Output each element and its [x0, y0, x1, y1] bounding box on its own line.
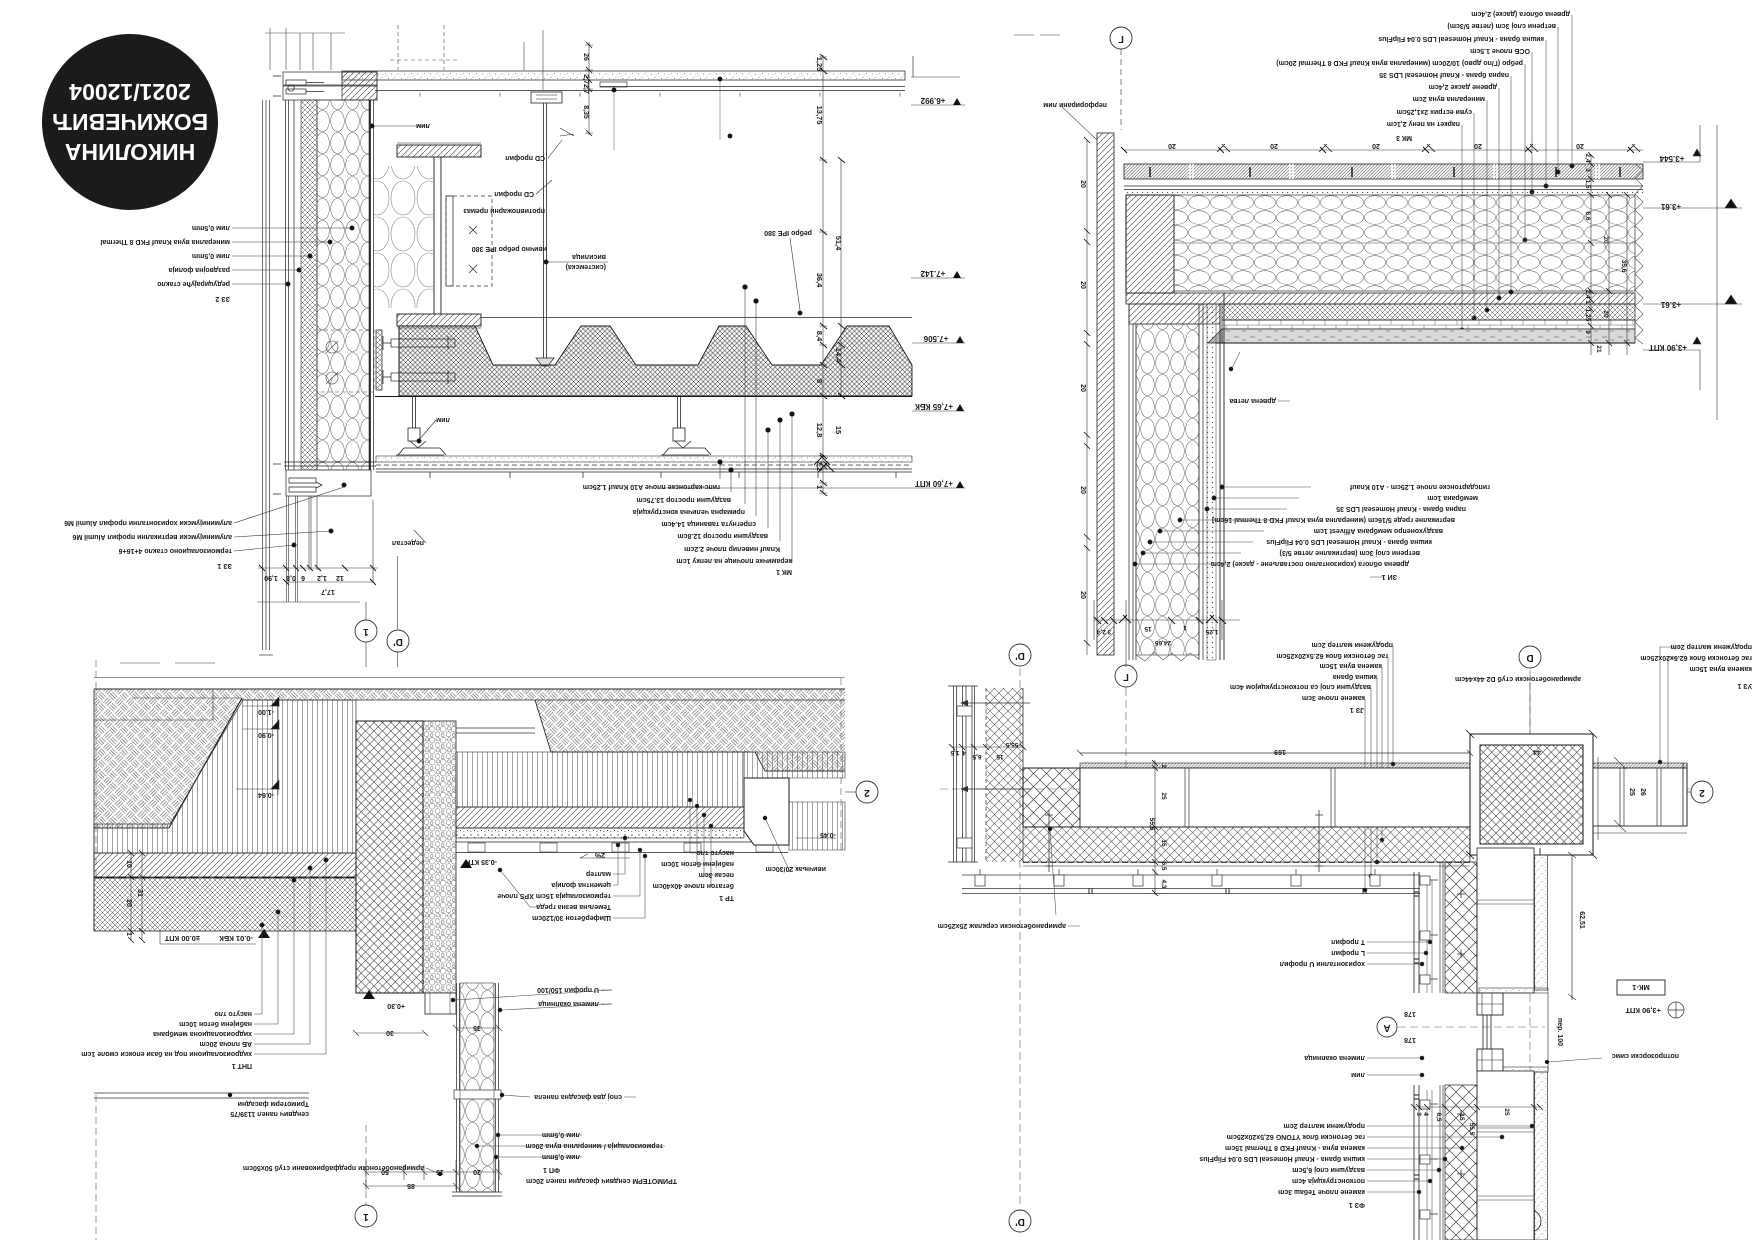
svg-text:ивично ребро IPE 380: ивично ребро IPE 380	[472, 245, 547, 253]
30 / 35 dims	[353, 1025, 502, 1036]
top dim line with 20s	[1121, 144, 1643, 153]
svg-text:УЗ 1: УЗ 1	[1737, 682, 1752, 689]
svg-text:редуцирајуће стакло: редуцирајуће стакло	[157, 280, 230, 288]
svg-text:бетатон плоче 40х40cm: бетатон плоче 40х40cm	[653, 882, 734, 890]
badge: black circle with author text (page is upside-down)	[42, 34, 218, 210]
svg-text:ваздушни слој са потконструкци: ваздушни слој са потконструкцијом 4cm	[1230, 683, 1371, 690]
svg-text:1: 1	[1584, 300, 1591, 304]
svg-text:малтер: малтер	[586, 870, 611, 877]
svg-text:12,8: 12,8	[815, 423, 824, 438]
svg-text:178: 178	[1404, 1010, 1416, 1017]
axis circles	[355, 1205, 377, 1227]
svg-text:55,5: 55,5	[1468, 1123, 1475, 1136]
svg-text:хидроизолациона мембрана: хидроизолациона мембрана	[153, 1030, 252, 1038]
window sill assembly bottom-left	[273, 462, 376, 496]
svg-text:8,4: 8,4	[815, 331, 824, 342]
svg-text:дрвена облога (даске) 2,4cm: дрвена облога (даске) 2,4cm	[1471, 10, 1570, 18]
+0.30 flag	[363, 990, 375, 999]
svg-text:20: 20	[1079, 180, 1086, 188]
svg-text:D': D'	[393, 636, 403, 647]
svg-text:169: 169	[1274, 748, 1286, 755]
top-left dims	[949, 744, 1026, 750]
svg-text:15: 15	[1144, 625, 1152, 632]
svg-text:2,4: 2,4	[1584, 153, 1591, 162]
ZI1 wall label stack	[1211, 483, 1490, 580]
bottom labels FP1	[526, 1131, 677, 1184]
south wall (vertical) upper part above window	[1414, 848, 1548, 993]
top wall: malter strip + block band	[1080, 763, 1470, 768]
left perforated strip	[1097, 133, 1114, 655]
svg-text:+7.142: +7.142	[920, 269, 945, 278]
svg-text:противпожарни премаз: противпожарни премаз	[463, 207, 545, 214]
svg-text:хоризонтални U профил: хоризонтални U профил	[1280, 960, 1365, 967]
svg-text:ваздушни простор 13.75cm: ваздушни простор 13.75cm	[637, 496, 731, 503]
interior floor assembly	[456, 807, 788, 853]
svg-text:висилица: висилица	[572, 253, 606, 260]
I-beam IPE 380	[397, 143, 481, 328]
svg-text:L профил: L профил	[1331, 949, 1365, 956]
svg-text:-0.35 КТР: -0.35 КТР	[465, 858, 497, 865]
bottom dim under wall	[1094, 600, 1240, 667]
ceiling joint ticks	[430, 472, 896, 478]
svg-text:спој два фасадна панела: спој два фасадна панела	[534, 1093, 622, 1100]
svg-text:хидроизолациони под на бази еп: хидроизолациони под на бази епокси смоле…	[81, 1050, 252, 1058]
svg-text:D: D	[1526, 652, 1533, 663]
svg-text:минерална вуна Knauf FKD 8 The: минерална вуна Knauf FKD 8 Thermal	[100, 238, 230, 245]
svg-text:продужени малтер 2cm: продужени малтер 2cm	[1312, 641, 1393, 648]
svg-text:44: 44	[1533, 748, 1541, 755]
trimoterm panel lines + label	[94, 1093, 309, 1098]
right dim columns	[1588, 152, 1630, 355]
svg-text:13,75: 13,75	[815, 106, 824, 125]
svg-text:потпрозорски симс: потпрозорски симс	[1612, 1052, 1679, 1059]
CD profile dashed box with fire-protection crosses	[446, 196, 492, 286]
roof top band	[342, 56, 913, 97]
svg-text:ФЗ 1: ФЗ 1	[1349, 1201, 1365, 1208]
svg-text:25: 25	[1503, 1108, 1510, 1116]
svg-text:лим: лим	[416, 122, 430, 129]
0.00 labels	[164, 934, 253, 943]
svg-text:85: 85	[407, 1182, 415, 1189]
svg-text:Темељна везна греда: Темељна везна греда	[536, 903, 611, 910]
tampon crosshatch band	[94, 878, 356, 931]
right soil polygon	[535, 700, 845, 771]
svg-text:1: 1	[125, 932, 132, 936]
svg-text:2: 2	[864, 787, 870, 798]
bottom dims	[363, 1160, 502, 1190]
svg-text:лим: лим	[1351, 1071, 1365, 1078]
svg-text:лим 0,5mm: лим 0,5mm	[542, 1153, 580, 1160]
svg-text:4,3: 4,3	[1160, 879, 1167, 888]
svg-text:1,25: 1,25	[1205, 628, 1218, 635]
lower roof bands	[1126, 293, 1635, 304]
svg-text:6,5: 6,5	[1160, 861, 1167, 870]
svg-text:ТРИМОТЕРМ сендвич фасадни пане: ТРИМОТЕРМ сендвич фасадни панел 20cm	[526, 1177, 677, 1184]
svg-text:15: 15	[436, 1168, 444, 1175]
svg-text:(системска): (системска)	[566, 263, 606, 270]
soil top strip	[94, 689, 845, 700]
svg-text:35,6: 35,6	[1620, 260, 1627, 273]
svg-text:алуминијумски вертикални профи: алуминијумски вертикални профил Alumil М…	[72, 533, 232, 540]
svg-text:20: 20	[1602, 236, 1609, 244]
left soil wedge	[94, 700, 242, 828]
svg-text:62,51: 62,51	[1578, 911, 1585, 929]
anchors in top wall	[1045, 810, 1323, 872]
svg-text:20: 20	[1372, 142, 1380, 149]
svg-text:25: 25	[1628, 788, 1635, 796]
svg-text:6,5: 6,5	[972, 753, 981, 760]
svg-text:гас бетонски блок YTONG 62,5х2: гас бетонски блок YTONG 62,5х20х25cm	[1227, 1133, 1365, 1141]
svg-text:кишна брана: кишна брана	[1333, 673, 1377, 681]
svg-text:лимена окапница: лимена окапница	[1304, 1054, 1365, 1061]
svg-text:ваздухонепро мембрана Affivest: ваздухонепро мембрана Affivest 1cm	[1314, 527, 1443, 535]
svg-text:4: 4	[962, 749, 966, 756]
svg-text:+6.992: +6.992	[920, 96, 945, 105]
elevation flags left	[94, 690, 280, 795]
svg-text:педестал: педестал	[392, 539, 424, 546]
svg-text:армиранобетонски предфабрикова: армиранобетонски предфабриковани стуб 50…	[243, 1164, 424, 1172]
svg-text:минерална вуна 2cm: минерална вуна 2cm	[1413, 95, 1485, 102]
column D2 44x44	[1466, 730, 1597, 859]
svg-text:кишна брана - Knauf Homeseal L: кишна брана - Knauf Homeseal LDS 0.04 Fl…	[1378, 35, 1544, 43]
svg-text:парна брана - Knauf Homeseal L: парна брана - Knauf Homeseal LDS 35	[1379, 71, 1509, 79]
svg-text:1,25: 1,25	[815, 57, 824, 72]
svg-text:термоизолационо стакло 4+16+6: термоизолационо стакло 4+16+6	[119, 547, 232, 554]
svg-text:армиранобетонски серклаж 25х25: армиранобетонски серклаж 25х25cm	[938, 922, 1066, 930]
svg-text:30: 30	[386, 1029, 394, 1036]
svg-text:ветрени слој 3cm (вертикалне л: ветрени слој 3cm (вертикалне летве 5/3)	[1280, 549, 1420, 556]
coil insulation blob left of beam	[374, 166, 433, 308]
svg-text:15: 15	[1458, 1113, 1465, 1121]
svg-text:лим 0,5mm: лим 0,5mm	[192, 224, 230, 231]
MK3 label stack (roof layers)	[1276, 10, 1570, 141]
roof deck boards strip	[1124, 164, 1643, 195]
svg-text:цементна фолија: цементна фолија	[551, 881, 611, 888]
svg-text:камене плоче Тебаш 3cm: камене плоче Тебаш 3cm	[1278, 1188, 1365, 1196]
svg-text:дрвене даске 2,4cm: дрвене даске 2,4cm	[1429, 83, 1497, 90]
svg-text:гипс-картонске плоче А10 Knauf: гипс-картонске плоче А10 Knauf 1.25cm	[583, 483, 720, 490]
svg-text:МК-1: МК-1	[1632, 983, 1650, 992]
svg-text:2: 2	[1699, 787, 1705, 798]
svg-text:ЗИ 1: ЗИ 1	[1382, 573, 1397, 580]
elevation markers right	[1649, 154, 1687, 352]
svg-text:термоизолација / минерална вун: термоизолација / минерална вуна 20cm	[526, 1142, 663, 1149]
svg-text:Тримотерм фасадни: Тримотерм фасадни	[238, 1100, 309, 1107]
svg-text:ребро IPE 380: ребро IPE 380	[764, 229, 812, 237]
soil outlines	[94, 689, 845, 828]
svg-text:12: 12	[336, 574, 344, 581]
svg-text:15: 15	[1160, 839, 1167, 847]
svg-text:ЗЗ 1: ЗЗ 1	[217, 562, 232, 569]
svg-text:1: 1	[1183, 624, 1187, 631]
south wall below window	[1414, 1071, 1548, 1240]
svg-text:гас бетонски блок 62.5х20х25cm: гас бетонски блок 62.5х20х25cm	[1640, 654, 1752, 662]
svg-text:10: 10	[125, 860, 132, 868]
svg-text:51,4: 51,4	[834, 236, 843, 251]
outer glazing lines running full height	[263, 100, 270, 650]
svg-text:55,5: 55,5	[1005, 741, 1018, 748]
svg-text:лимена окапница: лимена окапница	[538, 1000, 599, 1007]
annotation labels middle	[392, 122, 812, 546]
svg-text:гипсдартонске плоче 1.25cm - А: гипсдартонске плоче 1.25cm - А10 Knauf	[1349, 483, 1490, 490]
curb block	[744, 778, 789, 845]
cladding rail + brackets along top wall	[962, 869, 1420, 894]
svg-text:МК 3: МК 3	[1396, 134, 1412, 141]
svg-text:20: 20	[1168, 142, 1176, 149]
svg-text:камена вуна 15cm: камена вуна 15cm	[1319, 662, 1382, 669]
svg-text:21: 21	[1595, 345, 1602, 353]
svg-text:25: 25	[1160, 792, 1167, 800]
svg-text:1,90: 1,90	[264, 574, 278, 581]
svg-text:6,6: 6,6	[1584, 211, 1591, 220]
svg-text:керамичке плочице на лепку 1cm: керамичке плочице на лепку 1cm	[676, 557, 792, 564]
svg-text:ТР 1: ТР 1	[719, 894, 734, 901]
svg-text:-0.90: -0.90	[258, 731, 274, 738]
svg-text:4: 4	[1422, 1112, 1429, 1116]
svg-text:насуто тло: насуто тло	[696, 849, 734, 856]
deck fixing bolts to facade	[376, 330, 455, 390]
svg-text:20: 20	[1079, 281, 1086, 289]
svg-text:ЈЗ 1: ЈЗ 1	[1350, 706, 1364, 713]
pebble strip	[423, 721, 456, 993]
junction dots on roof	[612, 77, 733, 139]
svg-text:паркет на пену 2,1cm: паркет на пену 2,1cm	[1387, 120, 1460, 127]
svg-text:1,25: 1,25	[1584, 309, 1591, 322]
svg-text:1: 1	[363, 626, 369, 637]
svg-text:алуминијумски хоризонтални про: алуминијумски хоризонтални профил Alumil…	[64, 519, 232, 526]
svg-text:D': D'	[1015, 650, 1025, 661]
svg-text:9: 9	[1584, 330, 1591, 334]
facade blocking dashed box with fixings	[317, 330, 374, 392]
U profile box	[425, 993, 456, 1014]
wall thickness dims below window	[1411, 1104, 1543, 1110]
svg-text:пер. 100: пер. 100	[1556, 1018, 1563, 1046]
right fill region	[456, 752, 744, 807]
trapezoidal metal deck with insulation	[399, 326, 912, 396]
axis circles and dashed axes	[1009, 644, 1713, 1232]
svg-text:20: 20	[1576, 142, 1584, 149]
svg-text:+7,60 КПТ: +7,60 КПТ	[915, 479, 953, 488]
svg-text:лим: лим	[436, 416, 450, 423]
svg-text:потконструкција 4cm: потконструкција 4cm	[1292, 1177, 1365, 1184]
svg-text:15: 15	[996, 753, 1004, 760]
left facade assembly (plan, vertical strips)	[948, 686, 1030, 862]
svg-text:дрвена облога (хоризонтално по: дрвена облога (хоризонтално постављене -…	[1211, 560, 1409, 568]
svg-text:Г: Г	[1118, 33, 1124, 44]
plinth sandwich panel	[452, 983, 502, 1196]
svg-text:армиранобетонски стуб D2 44х44: армиранобетонски стуб D2 44х44cm	[1455, 675, 1581, 683]
svg-text:3: 3	[1584, 168, 1591, 172]
svg-text:спрегнута таваница 14.4cm: спрегнута таваница 14.4cm	[661, 520, 756, 527]
svg-text:35: 35	[473, 1024, 481, 1031]
svg-text:примарна челична конструкција: примарна челична конструкција	[633, 508, 745, 515]
PNT1 stack	[81, 1010, 252, 1069]
svg-text:6: 6	[301, 574, 305, 581]
svg-text:55,5: 55,5	[1148, 818, 1155, 831]
svg-text:суви естрих 2х1,25cm: суви естрих 2х1,25cm	[1397, 108, 1472, 115]
U profil / okapnica labels	[537, 986, 599, 1007]
svg-text:АБ плоча 20cm: АБ плоча 20cm	[199, 1040, 252, 1047]
top cut line	[94, 677, 845, 679]
svg-text:1,5: 1,5	[1584, 179, 1591, 188]
small dim column near hanger	[585, 42, 593, 136]
svg-text:-0.64: -0.64	[258, 791, 274, 798]
svg-text:14,4: 14,4	[834, 348, 843, 363]
dashed axes	[95, 660, 97, 1240]
svg-text:набијени бетон 10cm: набијени бетон 10cm	[179, 1020, 252, 1028]
svg-text:20: 20	[473, 1168, 481, 1175]
mid vertical dim column x1155	[1152, 760, 1158, 896]
svg-text:20: 20	[1079, 591, 1086, 599]
svg-text:сендвич панел 1139/75: сендвич панел 1139/75	[230, 1110, 309, 1117]
svg-text:20: 20	[1474, 142, 1482, 149]
svg-text:гас бетонски блок 62.5х20х25cm: гас бетонски блок 62.5х20х25cm	[1276, 652, 1388, 660]
svg-text:ребро (Г/по дрво) 10/20cm (мин: ребро (Г/по дрво) 10/20cm (минерална вун…	[1276, 59, 1523, 67]
svg-text:ваздушни простор 12.8cm: ваздушни простор 12.8cm	[677, 532, 768, 539]
svg-text:кишна брана - Knauf Homeseal L: кишна брана - Knauf Homeseal LDS 0.04 Fl…	[1266, 538, 1432, 546]
corner block + insulation band	[1126, 195, 1174, 293]
svg-text:МК 1: МК 1	[776, 568, 792, 575]
left fill region (vertical lines)	[94, 700, 356, 853]
MK1 stack	[583, 483, 792, 575]
left wall assembly vertical	[1129, 293, 1224, 661]
svg-text:продужени малтер 2cm: продужени малтер 2cm	[1671, 643, 1752, 650]
svg-text:раздвојна фолија: раздвојна фолија	[168, 266, 230, 273]
62,51 dim	[1568, 852, 1576, 1000]
svg-text:3 2,4: 3 2,4	[1096, 628, 1111, 635]
svg-text:Шифербетон 30/120cm: Шифербетон 30/120cm	[532, 914, 611, 922]
MK-1 box + elevation	[1617, 980, 1665, 995]
svg-text:17,7: 17,7	[321, 588, 335, 595]
svg-text:+3.61: +3.61	[1660, 300, 1681, 309]
svg-text:0,8: 0,8	[286, 574, 296, 581]
top JZ1 label stack	[1230, 641, 1393, 713]
svg-text:26: 26	[582, 53, 589, 61]
svg-text:15: 15	[834, 426, 843, 434]
svg-text:20: 20	[1602, 310, 1609, 318]
svg-text:8,35: 8,35	[582, 105, 589, 119]
right wing wall	[1593, 763, 1687, 833]
okapnica/lim labels mid	[1304, 1054, 1365, 1078]
svg-text:CD профил: CD профил	[494, 190, 534, 197]
elevation markers right	[915, 96, 964, 488]
ceiling hangers (pedestals)	[396, 396, 711, 455]
svg-text:Т профил: Т профил	[1331, 938, 1365, 945]
svg-text:+3.544: +3.544	[1659, 154, 1684, 163]
svg-text:лим 0,5mm: лим 0,5mm	[542, 1131, 580, 1138]
svg-text:камена вуна - Knauf FKD 8 Ther: камена вуна - Knauf FKD 8 Thermal 15cm	[1225, 1144, 1365, 1151]
svg-text:дрвена летва: дрвена летва	[1229, 397, 1276, 404]
svg-text:Knauf нивелир плоче 2.2cm: Knauf нивелир плоче 2.2cm	[684, 545, 780, 552]
svg-text:+3.61: +3.61	[1660, 202, 1681, 211]
TR1 terrace label stack	[653, 849, 734, 901]
svg-text:20: 20	[1079, 486, 1086, 494]
svg-text:+3,90 КПТ: +3,90 КПТ	[1625, 1006, 1661, 1015]
svg-text:U профил 150/100: U профил 150/100	[537, 986, 599, 993]
svg-text:1: 1	[363, 1211, 369, 1222]
svg-text:мембрана 1cm: мембрана 1cm	[1427, 494, 1478, 502]
svg-text:1,5: 1,5	[950, 749, 959, 756]
svg-text:продужени малтер 2cm: продужени малтер 2cm	[1284, 1122, 1365, 1129]
svg-text:А: А	[1383, 1022, 1390, 1033]
svg-text:ПНТ 1: ПНТ 1	[232, 1062, 252, 1069]
svg-text:камене плоче 3cm: камене плоче 3cm	[1302, 694, 1365, 701]
svg-text:вертикалне греде 5/16cm (минер: вертикалне греде 5/16cm (минерална вуна …	[1212, 516, 1455, 523]
svg-text:2,4: 2,4	[1584, 289, 1591, 298]
facade wall assembly (vertical)	[286, 100, 374, 470]
svg-text:ЗЗ 2: ЗЗ 2	[215, 295, 230, 302]
window head frame top-left	[273, 72, 377, 100]
svg-text:6,5: 6,5	[1435, 1112, 1442, 1121]
hanger rod (system)	[531, 92, 574, 366]
AB slab band	[94, 853, 356, 877]
svg-text:31: 31	[136, 889, 143, 897]
svg-text:лим 0,5mm: лим 0,5mm	[192, 252, 230, 259]
ragged right edge	[1635, 164, 1643, 344]
svg-text:+3,90 КПТ: +3,90 КПТ	[1649, 343, 1687, 352]
svg-text:178: 178	[1404, 1036, 1416, 1043]
svg-text:Г: Г	[1123, 671, 1129, 682]
svg-text:1,2: 1,2	[317, 574, 327, 581]
svg-text:CD профил: CD профил	[505, 154, 545, 161]
left label stack upper	[100, 224, 230, 302]
svg-text:камена вуна 15cm: камена вуна 15cm	[1689, 665, 1752, 672]
svg-text:20: 20	[1079, 384, 1086, 392]
svg-text:-0.45: -0.45	[820, 831, 836, 838]
axis circle Г top	[1014, 27, 1132, 130]
left dim column	[128, 850, 145, 943]
svg-text:+7,65 КБК: +7,65 КБК	[915, 402, 953, 411]
top extension lines	[265, 25, 543, 90]
svg-text:+0.30: +0.30	[387, 1002, 405, 1009]
svg-text:26: 26	[1639, 788, 1646, 796]
svg-text:3: 3	[1415, 1112, 1422, 1116]
svg-text:1: 1	[815, 485, 824, 489]
svg-text:НИКОЛИНА: НИКОЛИНА	[65, 139, 195, 165]
top wall: corner block	[1023, 768, 1080, 827]
ledge lines right of wall	[456, 728, 535, 733]
left label stack lower	[64, 519, 232, 569]
svg-text:2021/12004: 2021/12004	[69, 79, 191, 105]
suspended ceiling	[376, 456, 912, 472]
left dim 20 column	[1084, 137, 1090, 655]
svg-text:ФП 1: ФП 1	[543, 1166, 560, 1173]
svg-text:ваздушни слој 6,5cm: ваздушни слој 6,5cm	[1292, 1166, 1365, 1173]
svg-text:ивичњак 20/30cm: ивичњак 20/30cm	[766, 865, 826, 872]
svg-text:насуто тло: насуто тло	[214, 1010, 252, 1017]
svg-text:кишна брана - Knauf Homeseal L: кишна брана - Knauf Homeseal LDS 0.04 Fl…	[1199, 1155, 1365, 1163]
svg-text:2,72,7: 2,72,7	[582, 74, 589, 94]
svg-text:2%: 2%	[594, 851, 605, 858]
svg-text:ОСБ плоче 1.5cm: ОСБ плоче 1.5cm	[1470, 47, 1530, 54]
dim texts right (rotated for upside-down page)	[815, 57, 843, 489]
svg-text:2: 2	[1160, 764, 1167, 768]
svg-text:20: 20	[1270, 142, 1278, 149]
svg-text:20: 20	[125, 899, 132, 907]
svg-text:50: 50	[381, 1168, 389, 1175]
top wall: insulation band (lattice)	[1023, 827, 1470, 862]
svg-text:термоизолација 15cm XPS плоче: термоизолација 15cm XPS плоче	[497, 892, 611, 899]
svg-text:-1.00: -1.00	[258, 708, 274, 715]
svg-text:36,4: 36,4	[815, 273, 824, 288]
profiles labels	[1280, 938, 1365, 967]
window assembly	[1479, 988, 1548, 993]
foundation wall pillar	[356, 721, 423, 993]
svg-text:+7.506: +7.506	[923, 334, 948, 343]
169 dim	[1077, 750, 1473, 756]
svg-text:8: 8	[815, 379, 824, 383]
svg-text:D': D'	[1015, 1216, 1025, 1227]
